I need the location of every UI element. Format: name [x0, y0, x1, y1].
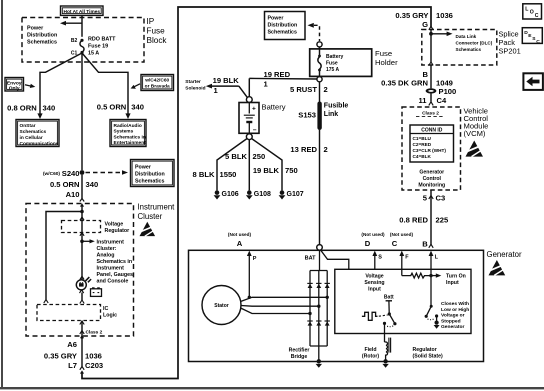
svg-text:Regulator: Regulator	[105, 228, 130, 234]
LOC button	[523, 4, 542, 19]
node: phase to bridge left leg	[308, 312, 311, 315]
connector 5 C3	[423, 194, 445, 203]
fork connector centre wire into IC Logic	[80, 300, 84, 304]
svg-text:G: G	[422, 20, 428, 29]
IC Logic dashed box	[37, 305, 101, 321]
wire label 0.8 ORN 340	[7, 103, 55, 112]
svg-text:0.5 ORN: 0.5 ORN	[97, 103, 127, 112]
svg-text:G108: G108	[254, 191, 271, 198]
CONN ID table	[410, 125, 454, 162]
svg-text:C: C	[536, 39, 540, 45]
svg-text:Entertainment: Entertainment	[114, 140, 147, 146]
pass-through grommet P100	[426, 87, 457, 96]
svg-text:P: P	[253, 256, 257, 262]
L switch arm	[426, 306, 431, 316]
wire label 0.5 ORN 340 (to A10)	[50, 180, 98, 189]
svg-text:Schematics: Schematics	[135, 179, 164, 185]
svg-text:Control: Control	[423, 176, 442, 182]
IC Logic label	[103, 306, 117, 319]
battery bottom terminal	[246, 134, 252, 140]
svg-text:IC: IC	[103, 306, 108, 312]
stator phase wires to rectifier	[241, 297, 328, 313]
svg-text:Batt: Batt	[384, 294, 394, 300]
connector at generator L terminal	[429, 244, 433, 248]
svg-text:Voltage: Voltage	[105, 222, 124, 228]
svg-text:Low or High: Low or High	[441, 307, 469, 313]
svg-text:1550: 1550	[220, 170, 237, 179]
rectifier bridge frame	[310, 271, 327, 347]
svg-text:S153: S153	[298, 110, 316, 119]
svg-text:Bridge: Bridge	[291, 354, 308, 360]
diode top-mid	[316, 283, 321, 288]
svg-text:Sensing: Sensing	[364, 280, 384, 286]
wire label 8 BLK 1550	[193, 170, 237, 179]
connector C203	[68, 361, 103, 374]
P terminal arrow	[247, 251, 257, 298]
svg-text:Battery: Battery	[262, 103, 286, 112]
fork connector below IC Logic	[80, 321, 84, 325]
connector at voltage regulator top	[80, 217, 84, 220]
ESD warning triangle (VCM)	[466, 141, 483, 157]
stator	[202, 286, 241, 325]
diode top-left	[307, 283, 312, 288]
ground below field coil	[382, 359, 388, 368]
diode top-right	[325, 283, 330, 288]
svg-text:Fusible: Fusible	[324, 103, 349, 110]
splice pack SP201 dashed box	[422, 30, 497, 66]
S terminal arrow and wire	[372, 251, 382, 270]
dashed arrow from S240 to Power Distribution Schematics	[86, 170, 129, 175]
wire 19 BLK to starter solenoid	[206, 84, 248, 98]
Vehicle Control Module (VCM) label	[464, 107, 489, 139]
svg-text:2: 2	[324, 85, 328, 94]
diode bottom-right	[325, 321, 330, 326]
svg-text:0.35 GRY: 0.35 GRY	[44, 351, 77, 360]
arrow to Turn On Input	[433, 273, 442, 277]
svg-text:Panel, Gauges: Panel, Gauges	[97, 272, 134, 278]
ESD warning triangle (instrument cluster)	[140, 222, 156, 236]
svg-text:Distribution: Distribution	[27, 33, 57, 39]
svg-text:C: C	[535, 13, 539, 19]
svg-text:0.8 RED: 0.8 RED	[399, 215, 428, 224]
svg-text:C4: C4	[437, 96, 447, 105]
battery B+	[239, 103, 286, 135]
svg-text:C3: C3	[436, 194, 446, 203]
svg-text:Power: Power	[27, 26, 44, 32]
svg-text:Connector (DLC): Connector (DLC)	[456, 41, 493, 46]
svg-text:Rectifier: Rectifier	[289, 348, 310, 354]
Voltage Regulator label	[105, 222, 130, 235]
svg-text:Generator: Generator	[487, 250, 523, 259]
Fuse Holder box	[310, 49, 372, 77]
svg-text:SP201: SP201	[499, 47, 521, 56]
field (rotor) coil	[385, 338, 391, 362]
junction with arrow to instrument cluster analog schematics	[80, 239, 95, 243]
wire contact to internal ground	[436, 316, 438, 321]
svg-text:Instrument: Instrument	[97, 265, 125, 271]
connector symbol at A10 / cluster edge	[80, 199, 84, 212]
svg-text:Instrument: Instrument	[138, 203, 176, 212]
Power Distribution Schematics box (left, lower)	[131, 160, 175, 187]
wire lamp to IC logic	[81, 293, 83, 301]
svg-text:340: 340	[43, 103, 56, 112]
internal ground (L switch)	[434, 321, 440, 329]
Closes With Low or High Voltage or Stopped Generator label	[441, 301, 469, 330]
svg-text:1036: 1036	[85, 351, 102, 360]
svg-text:w/C42/C60: w/C42/C60	[144, 77, 169, 83]
svg-text:O: O	[530, 10, 534, 16]
svg-text:Block: Block	[147, 36, 168, 45]
Starter Solenoid label	[185, 79, 205, 91]
Fuse Holder label	[375, 49, 398, 67]
svg-text:Only: Only	[9, 86, 20, 92]
Voltage Sensing Input label	[364, 273, 384, 292]
svg-text:15 A: 15 A	[88, 50, 99, 56]
svg-text:BAT: BAT	[305, 255, 317, 261]
instrument cluster dashed box	[26, 204, 134, 337]
svg-text:0.5 ORN: 0.5 ORN	[50, 180, 80, 189]
svg-text:Solenoid: Solenoid	[185, 85, 205, 91]
fuse holder top terminal	[317, 42, 322, 47]
svg-text:Stator: Stator	[214, 303, 229, 309]
perimeter wire 0.35 GRY circuit C203 to splice pack	[82, 7, 431, 379]
svg-text:C203: C203	[85, 361, 103, 370]
wire label 19 BLK 1	[213, 76, 240, 95]
svg-text:Distribution: Distribution	[268, 23, 298, 29]
svg-text:Input: Input	[446, 280, 459, 286]
svg-text:OnStar: OnStar	[20, 123, 36, 129]
arrow to Power Distribution Schematics (IP)	[60, 21, 82, 26]
svg-text:S240: S240	[62, 169, 80, 178]
wire P100 to VCM	[430, 94, 432, 102]
svg-text:0.35 GRY: 0.35 GRY	[395, 11, 428, 20]
svg-text:Fuse: Fuse	[375, 49, 392, 58]
field switch pivot node	[388, 312, 391, 315]
arrowhead into OnStar box	[37, 113, 42, 119]
F terminal arrow and wire	[399, 251, 409, 276]
svg-text:Schematics in: Schematics in	[97, 259, 133, 265]
junction node in splice pack	[429, 32, 433, 36]
Regulator (Solid State) label	[413, 347, 444, 360]
svg-text:Schematics: Schematics	[20, 129, 47, 135]
svg-text:IP: IP	[147, 17, 155, 26]
terminal C (not used)	[390, 232, 414, 248]
battery legend icon	[91, 287, 102, 296]
Hot At All Times box	[61, 6, 104, 15]
svg-text:+: +	[252, 106, 256, 113]
svg-text:C4=BLK: C4=BLK	[413, 154, 432, 159]
square wave control symbol	[362, 312, 378, 320]
svg-text:Cluster:: Cluster:	[97, 246, 117, 252]
ESD warning triangle (generator)	[489, 260, 506, 275]
fork connector at splice pack bottom B	[429, 62, 433, 65]
wire VCM to generator 0.8 RED	[430, 190, 432, 245]
svg-text:Generator: Generator	[419, 170, 444, 176]
ground G106	[214, 190, 239, 199]
L switch arm end node	[425, 315, 428, 318]
terminal A (not used)	[228, 232, 252, 248]
wire label 19 BLK 750	[253, 166, 298, 175]
svg-text:Distribution: Distribution	[135, 172, 165, 178]
svg-text:Cluster: Cluster	[138, 212, 163, 221]
arrow from w/C42 box to wire	[131, 84, 140, 89]
Batt label and rail	[384, 294, 394, 312]
Class 2 underline	[416, 116, 445, 118]
svg-text:A10: A10	[66, 190, 80, 199]
fuse RDO BATT Fuse 19 15A	[71, 37, 116, 57]
Battery Fuse 175 A symbol	[318, 49, 344, 77]
Instrument Cluster label	[138, 203, 176, 222]
svg-text:Power: Power	[135, 165, 151, 171]
svg-text:P100: P100	[439, 87, 457, 96]
svg-text:(Solid State): (Solid State)	[413, 353, 444, 359]
svg-text:Voltage or: Voltage or	[441, 313, 465, 319]
svg-text:Analog: Analog	[97, 252, 115, 258]
wire label 13 RED 2	[290, 145, 327, 154]
svg-text:Monitoring: Monitoring	[418, 183, 445, 189]
fork connector at splice pack top	[429, 27, 433, 30]
svg-text:(VCM): (VCM)	[464, 129, 486, 138]
svg-text:C3=CLR (WHT): C3=CLR (WHT)	[413, 148, 447, 153]
fuse holder bottom terminal	[317, 77, 322, 82]
svg-text:Communications: Communications	[20, 141, 59, 147]
field switch fixed contact node	[383, 322, 386, 325]
svg-text:Regulator: Regulator	[413, 347, 437, 353]
wire label 0.35 GRY 1036 (top right)	[395, 11, 452, 20]
wire 13 RED (fusible link to generator BAT)	[319, 130, 321, 245]
wire label 0.8 RED 225	[399, 215, 449, 224]
wire BAT to regulator	[321, 250, 349, 269]
wire bridge to ground	[318, 346, 320, 362]
svg-text:Class 2: Class 2	[86, 330, 103, 336]
wire through voltage regulator	[81, 212, 83, 280]
svg-text:Input: Input	[368, 286, 381, 292]
node: P tap on top phase	[248, 296, 251, 299]
wire contact to field coil	[384, 323, 386, 342]
svg-text:S: S	[378, 254, 382, 260]
ground G108	[246, 190, 271, 199]
svg-text:and Console: and Console	[97, 278, 129, 284]
svg-text:in Cellular: in Cellular	[20, 135, 43, 141]
svg-text:Battery: Battery	[326, 54, 343, 60]
fusible link S153	[298, 102, 348, 131]
L switch pivot node	[430, 305, 433, 308]
svg-text:Logic: Logic	[103, 313, 117, 319]
svg-text:340: 340	[86, 180, 99, 189]
wire IC logic to cluster edge	[81, 321, 83, 340]
svg-text:L7: L7	[68, 361, 77, 370]
svg-text:Link: Link	[324, 111, 338, 118]
svg-text:Stopped: Stopped	[441, 318, 461, 324]
svg-text:0.35 DK GRN: 0.35 DK GRN	[381, 78, 428, 87]
svg-text:RDO BATT: RDO BATT	[88, 37, 116, 43]
svg-text:−: −	[253, 127, 257, 134]
wire S240 to A10	[81, 175, 83, 199]
svg-text:13 RED: 13 RED	[290, 145, 317, 154]
Radio/Audio Systems box	[110, 120, 146, 147]
dashed arrow from fuse holder wire to Power Distribution Schematics	[308, 23, 320, 41]
back arrow button	[523, 73, 543, 90]
svg-text:250: 250	[253, 152, 266, 161]
resistor F to L	[402, 273, 430, 278]
Splice Pack SP201 label	[499, 30, 521, 56]
svg-text:2: 2	[324, 145, 328, 154]
svg-text:1036: 1036	[436, 11, 453, 20]
svg-text:8 BLK: 8 BLK	[193, 170, 215, 179]
svg-text:Generator: Generator	[441, 324, 464, 330]
IP Fuse Block dashed box	[22, 18, 144, 63]
ground G107	[279, 190, 304, 199]
svg-text:Fuse: Fuse	[326, 61, 338, 67]
left bypass wire to IC logic	[46, 212, 82, 300]
ground below rectifier bridge	[316, 359, 322, 368]
wire through splice pack	[430, 30, 432, 63]
regulator box	[335, 269, 471, 333]
svg-text:D: D	[365, 239, 371, 248]
svg-text:Holder: Holder	[375, 58, 398, 67]
svg-text:Schematics: Schematics	[27, 40, 57, 46]
wire label 0.35 GRY 1036 (bottom)	[44, 351, 102, 360]
junction node resistor/L	[429, 274, 432, 277]
wire label 5 RUST 2	[290, 85, 328, 94]
arrow to Data Link Connector schematics	[431, 32, 453, 37]
wire A6 to C203	[81, 338, 83, 367]
node: phase to bridge mid leg	[317, 305, 320, 308]
BAT junction circle	[317, 245, 323, 251]
svg-text:750: 750	[285, 166, 298, 175]
svg-text:Schematics in: Schematics in	[114, 134, 146, 140]
diode bottom-left	[307, 321, 312, 326]
svg-text:11: 11	[418, 96, 427, 105]
svg-text:Radio/Audio: Radio/Audio	[114, 123, 142, 129]
DESC button	[522, 28, 542, 45]
Power Distribution Schematics box (top middle)	[265, 12, 306, 40]
junction node in cluster	[80, 210, 84, 214]
splice S240	[43, 169, 84, 178]
Data Link Connector (DLC) Schematics note	[456, 34, 493, 52]
arrow from Envoy Only to wire	[25, 84, 35, 88]
connector at cluster bottom edge A6	[80, 331, 84, 339]
wire label 0.5 ORN 340 (right branch)	[97, 103, 144, 112]
page left border	[1, 0, 3, 388]
Envoy Only box	[5, 78, 24, 92]
connector 11 C4	[418, 96, 447, 106]
svg-text:Envoy: Envoy	[7, 80, 22, 86]
fork connector left wire into IC Logic	[44, 300, 48, 304]
terminal D (not used)	[361, 232, 385, 248]
svg-text:A6: A6	[67, 340, 77, 349]
ground wires fanout	[217, 139, 282, 191]
svg-text:G106: G106	[222, 191, 239, 198]
svg-text:Field: Field	[364, 347, 376, 353]
svg-text:Data Link: Data Link	[456, 34, 477, 39]
svg-text:(Rotor): (Rotor)	[362, 353, 380, 359]
L switch travel arc (dotted)	[428, 318, 435, 321]
wire label 5 BLK 250	[225, 152, 265, 161]
svg-text:5 BLK: 5 BLK	[225, 152, 247, 161]
node: phase to bridge right leg	[326, 296, 329, 299]
battery top terminal	[246, 97, 252, 103]
Turn On Input label	[446, 274, 466, 287]
svg-text:(Not used): (Not used)	[361, 232, 385, 237]
svg-text:CONN ID: CONN ID	[421, 128, 443, 134]
wire 19 RED (fuse holder to battery)	[249, 78, 317, 96]
svg-text:Schematics: Schematics	[456, 47, 482, 52]
svg-text:B2: B2	[71, 38, 78, 44]
svg-text:Instrument: Instrument	[97, 239, 125, 245]
svg-text:Power: Power	[268, 16, 284, 22]
Power Distribution Schematics text (IP fuse block)	[27, 26, 57, 46]
wire BAT down through bridge	[319, 250, 321, 270]
svg-text:Fuse: Fuse	[147, 27, 166, 36]
VCM dashed box	[402, 107, 461, 190]
wire 0.35 DK GRN	[430, 66, 432, 89]
svg-text:Voltage: Voltage	[365, 273, 383, 279]
svg-text:(Not used): (Not used)	[390, 232, 414, 237]
svg-text:340: 340	[131, 103, 144, 112]
Field (Rotor) label	[362, 347, 380, 360]
field switch arm end node	[393, 322, 396, 325]
OnStar Schematics box	[16, 120, 59, 148]
svg-text:(w/C60): (w/C60)	[43, 171, 60, 177]
svg-text:Turn On: Turn On	[446, 274, 466, 280]
svg-text:Class 2: Class 2	[422, 110, 439, 116]
connector above indicator lamp	[80, 276, 84, 279]
svg-text:Fuse 19: Fuse 19	[88, 44, 108, 50]
w/C42/C60 or Bravada box	[141, 75, 174, 91]
svg-text:175 A: 175 A	[326, 67, 340, 73]
voltage regulator dashed box	[62, 221, 101, 233]
svg-text:or Bravada: or Bravada	[145, 83, 170, 89]
svg-text:(Not used): (Not used)	[228, 232, 252, 237]
field switch arm	[389, 314, 395, 324]
charge indicator lamp	[76, 277, 91, 290]
svg-text:Closes With: Closes With	[441, 301, 469, 307]
IP Fuse Block label	[147, 17, 168, 45]
svg-text:225: 225	[436, 215, 449, 224]
svg-text:5 RUST: 5 RUST	[290, 85, 317, 94]
field switch travel arc (dotted)	[386, 326, 393, 327]
svg-text:19 BLK: 19 BLK	[213, 76, 240, 85]
wire from Hot At All Times to fuse	[81, 15, 83, 37]
generator box	[189, 250, 484, 361]
dashed link square wave to switch	[379, 315, 388, 316]
svg-text:B: B	[422, 240, 428, 249]
page bottom separator	[0, 387, 544, 389]
svg-text:Systems: Systems	[114, 129, 134, 135]
svg-text:G107: G107	[287, 191, 304, 198]
svg-text:C: C	[392, 239, 398, 248]
svg-text:19 BLK: 19 BLK	[253, 166, 280, 175]
svg-text:Hot At All Times: Hot At All Times	[63, 9, 100, 15]
wire fanout below fuse	[40, 53, 128, 170]
Generator Control Monitoring label	[418, 170, 445, 189]
Instrument Cluster: Analog Schematics note	[97, 239, 134, 284]
svg-text:Starter: Starter	[185, 79, 201, 85]
wire 5 RUST (fuse holder to fusible link)	[319, 82, 321, 102]
svg-text:C2=RED: C2=RED	[413, 142, 432, 147]
connector below lamp	[80, 290, 84, 293]
arrowhead into Radio box	[125, 113, 130, 119]
wire label 0.35 DK GRN 1049	[381, 78, 453, 87]
diode bottom-mid	[316, 321, 321, 326]
Rectifier Bridge label	[289, 348, 310, 361]
L switch fixed contact node	[435, 314, 438, 317]
svg-text:A: A	[237, 239, 243, 248]
svg-text:19 RED: 19 RED	[264, 70, 291, 79]
svg-text:C1=BLU: C1=BLU	[413, 136, 432, 141]
svg-text:0.8 ORN: 0.8 ORN	[7, 103, 37, 112]
